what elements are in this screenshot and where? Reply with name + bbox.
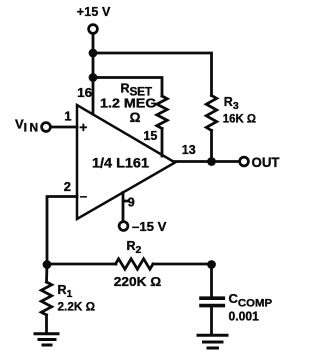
svg-text:1/4 L161: 1/4 L161 (92, 156, 150, 171)
wire: +15V terminal down to op-amp pin 16 (92, 34, 95, 114)
node: feedback left (43, 260, 52, 269)
ground (left) (35, 334, 58, 345)
svg-text:9: 9 (128, 196, 135, 210)
svg-text:13: 13 (182, 143, 196, 157)
ground (right) (198, 335, 227, 348)
OUT terminal (240, 157, 249, 166)
output node (207, 157, 216, 166)
pin 9 tick (124, 200, 128, 203)
wire: pin 2 feedback down-left (47, 197, 77, 265)
svg-text:VIN: VIN (15, 117, 38, 135)
svg-text:1: 1 (64, 109, 71, 124)
svg-text:CCOMP: CCOMP (229, 291, 273, 310)
output wire pin 13 to OUT (175, 160, 239, 163)
svg-text:R3: R3 (224, 95, 239, 112)
op-amp U1 1/4 L161 (77, 105, 175, 219)
capacitor CCOMP 0.001 (201, 298, 223, 305)
svg-text:+: + (79, 119, 87, 135)
node: supply to R3 branch (89, 49, 98, 58)
svg-text:220K Ω: 220K Ω (114, 274, 162, 289)
svg-text:16: 16 (77, 85, 92, 100)
VIN terminal (42, 123, 51, 132)
wire: capacitor to ground (210, 307, 213, 334)
svg-text:Ω: Ω (130, 110, 141, 125)
node: feedback right (207, 260, 216, 269)
node: supply to RSET branch (89, 73, 98, 82)
resistor R3 (16K) (206, 96, 216, 131)
svg-text:+15 V: +15 V (77, 5, 111, 19)
wire: R2 to output branch (153, 263, 212, 266)
wire: feedback bottom rail left segment (47, 263, 116, 266)
wire: VIN to pin 1 (51, 126, 77, 129)
-15 V terminal (119, 222, 128, 231)
wire: node to R1 (45, 264, 48, 282)
wire: output node down to capacitor (210, 264, 213, 297)
wire: pin 9 to -15V terminal (122, 193, 125, 222)
svg-text:1.2 MEG: 1.2 MEG (100, 95, 157, 110)
wire: R1 to ground (45, 315, 48, 333)
svg-text:R1: R1 (58, 283, 73, 300)
wire: RSET to pin 15 (161, 129, 164, 157)
svg-text:2: 2 (64, 179, 71, 194)
svg-text:2.2K Ω: 2.2K Ω (58, 299, 96, 313)
svg-text:–15 V: –15 V (132, 219, 167, 234)
svg-text:OUT: OUT (252, 155, 281, 170)
resistor R2 (220K) (116, 259, 154, 269)
svg-text:16K Ω: 16K Ω (223, 112, 256, 126)
svg-text:R2: R2 (127, 239, 142, 256)
wire: top rail to R3 (93, 53, 212, 96)
+15 V terminal (89, 25, 98, 34)
wire: rail to RSET (93, 78, 162, 97)
wire: R3 to output node (210, 131, 213, 162)
svg-text:0.001: 0.001 (229, 309, 259, 323)
svg-text:15: 15 (143, 129, 157, 143)
resistor RSET (1.2 MEG) (157, 96, 167, 129)
resistor R1 (2.2K) (41, 282, 51, 315)
svg-text:–: – (80, 189, 87, 204)
